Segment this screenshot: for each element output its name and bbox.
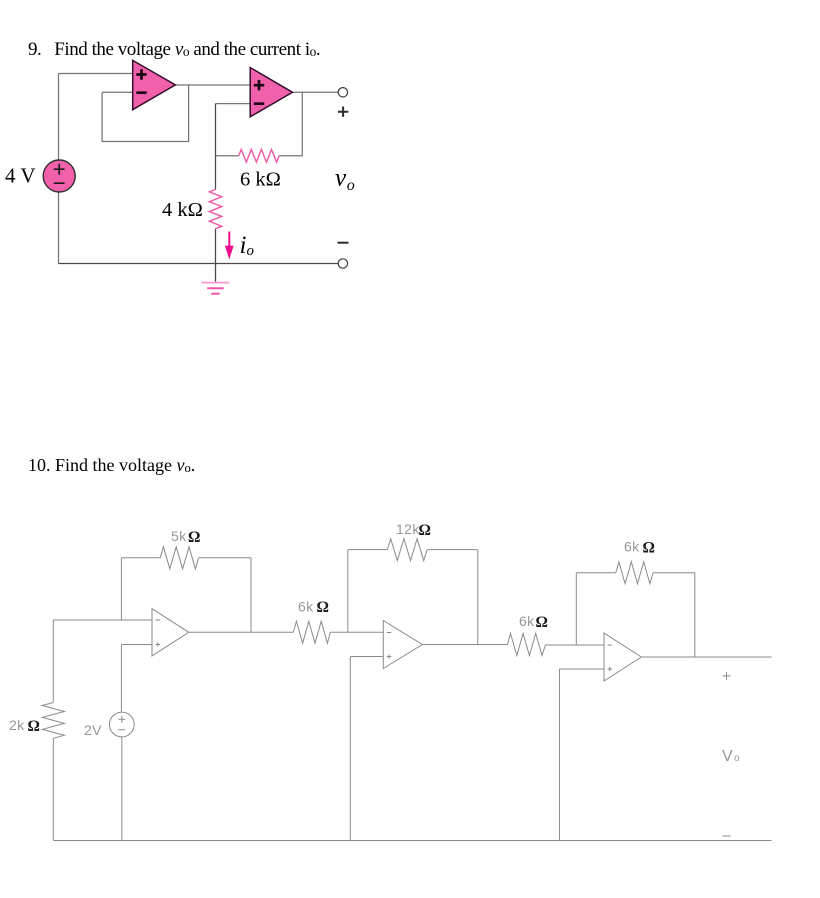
svg-text:Ω: Ω xyxy=(643,540,655,557)
resistor R3 2k (vertical) xyxy=(42,703,64,739)
wire 6k left lead xyxy=(216,155,239,157)
wire top: source rail to op-amp U1 + input xyxy=(59,73,133,75)
svg-text:V: V xyxy=(722,748,733,765)
wire U3 output lead xyxy=(189,631,293,633)
wire feedback U5 right vertical xyxy=(694,573,696,657)
wire U5 plus input xyxy=(560,668,605,670)
wire U3 plus input down to source xyxy=(120,645,122,713)
ground xyxy=(202,264,230,294)
wire feedback U4 right vertical xyxy=(477,550,479,645)
svg-text:2V: 2V xyxy=(84,722,102,738)
svg-text:o: o xyxy=(734,753,740,764)
op-amp U3 xyxy=(152,609,189,656)
label - (output polarity) xyxy=(723,835,731,837)
resistor R2 4k (vertical) xyxy=(209,189,221,228)
wire U4 output lead xyxy=(422,644,507,646)
op-amp U1 xyxy=(133,60,176,109)
svg-text:Ω: Ω xyxy=(188,529,200,546)
op-amp U2 xyxy=(250,68,292,117)
wire U4 plus input down to bottom rail xyxy=(349,657,351,841)
svg-text:Ω: Ω xyxy=(419,522,431,539)
wire U2 output down to 6k xyxy=(301,92,303,156)
wire R7 to U5 minus input xyxy=(546,644,604,646)
wire feedback U3 left vertical xyxy=(120,558,122,620)
resistor R6 12k (feedback) xyxy=(387,539,427,561)
svg-text:6k: 6k xyxy=(519,613,535,629)
problem 10 title xyxy=(28,455,195,476)
wire U4 plus input xyxy=(350,656,383,658)
label + (output polarity) xyxy=(338,107,348,117)
wire left rail upper xyxy=(52,620,54,703)
svg-text:4 kΩ: 4 kΩ xyxy=(162,199,203,221)
wire left rail lower xyxy=(52,738,54,840)
wire U2 minus input to mid rail xyxy=(216,103,251,105)
wire source to bottom rail xyxy=(121,737,123,841)
label - (output polarity) xyxy=(338,242,349,244)
wire 6k right lead xyxy=(279,155,302,157)
wire mid rail lower (4k resistor to bottom rail) xyxy=(215,229,217,264)
wire feedback U5 top right lead xyxy=(653,572,695,574)
svg-text:io: io xyxy=(240,232,255,259)
svg-text:vo: vo xyxy=(335,165,355,195)
op-amp U4 xyxy=(383,621,422,669)
wire R5 to U4 minus input xyxy=(330,631,383,633)
node terminal - (bottom output) xyxy=(338,259,347,268)
resistor R1 6k (horizontal) xyxy=(239,150,279,163)
wire feedback U5 left vertical xyxy=(575,573,577,645)
wire U5 plus input down to bottom rail xyxy=(559,669,561,841)
op-amp U5 xyxy=(604,633,641,681)
svg-text:5k: 5k xyxy=(171,528,187,544)
svg-text:2k: 2k xyxy=(9,717,25,733)
resistor R5 6k (series) xyxy=(293,621,330,643)
voltage source V1 4V xyxy=(43,160,75,192)
wire feedback U1: minus input stub xyxy=(102,91,133,93)
svg-text:6k: 6k xyxy=(298,599,314,615)
svg-text:12k: 12k xyxy=(396,521,420,537)
wire U3 plus input xyxy=(121,644,152,646)
problem 9 title xyxy=(28,39,320,61)
wire feedback U4 top right lead xyxy=(427,549,478,551)
wire bottom rail to output terminal xyxy=(59,263,339,265)
resistor R7 6k (series) xyxy=(507,634,545,656)
svg-text:6 kΩ: 6 kΩ xyxy=(240,169,281,191)
svg-text:4 V: 4 V xyxy=(5,164,36,188)
wire U1 output to U2 + input xyxy=(175,84,250,86)
wire left rail from top wire to bottom rail xyxy=(58,74,60,264)
wire bottom rail xyxy=(53,840,771,842)
wire feedback U4 top left lead xyxy=(348,549,388,551)
svg-text:Ω: Ω xyxy=(536,614,548,631)
wire feedback U1 loop xyxy=(102,85,189,142)
node terminal + (top output) xyxy=(338,88,347,97)
resistor R8 6k (feedback) xyxy=(616,562,653,584)
svg-text:Ω: Ω xyxy=(28,718,40,735)
voltage source V2 2V xyxy=(109,712,134,737)
resistor R4 5k (feedback) xyxy=(160,547,198,569)
wire mid rail upper (node A to 4k resistor) xyxy=(215,104,217,190)
wire U5 output xyxy=(641,656,771,658)
current arrow io xyxy=(225,232,234,260)
wire feedback U3 top left lead xyxy=(121,557,160,559)
wire feedback U3 right vertical xyxy=(250,558,252,633)
wire U2 output to + terminal xyxy=(293,91,339,93)
svg-text:6k: 6k xyxy=(624,539,640,555)
svg-text:Ω: Ω xyxy=(317,599,329,616)
wire U3 minus input from left rail xyxy=(53,619,152,621)
wire feedback U4 left vertical xyxy=(347,550,349,633)
wire feedback U3 top right lead xyxy=(199,557,251,559)
wire feedback U5 top left lead xyxy=(576,572,616,574)
label + (output polarity) xyxy=(723,672,731,680)
